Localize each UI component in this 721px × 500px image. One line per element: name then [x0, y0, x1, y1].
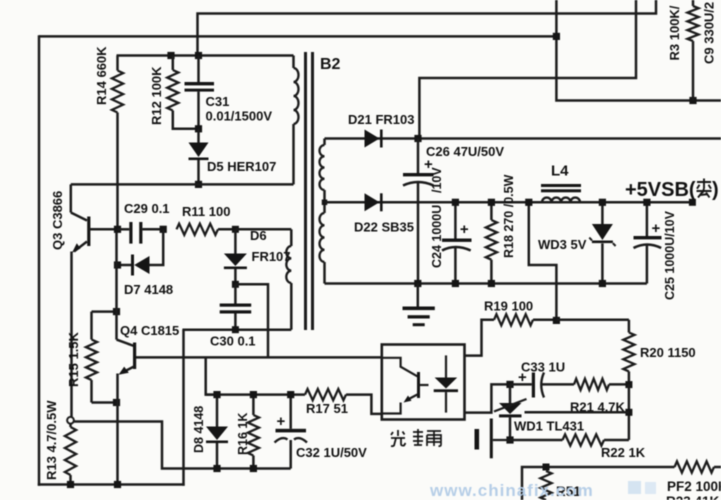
svg-text:R11 100: R11 100	[182, 204, 230, 219]
node junction dot L4 branch	[525, 199, 532, 206]
resistor R18 270	[486, 202, 497, 283]
svg-text:WD3 5V: WD3 5V	[538, 237, 587, 252]
svg-text:C24 1000U: C24 1000U	[430, 205, 444, 268]
wire aux winding top link	[235, 228, 291, 231]
svg-text:R3 100K/: R3 100K/	[667, 5, 682, 60]
svg-text:Q3 C3866: Q3 C3866	[50, 191, 65, 250]
svg-text:D7 4148: D7 4148	[124, 282, 173, 297]
svg-text:R23 41K: R23 41K	[666, 494, 720, 500]
transistor Q3 C3866	[71, 184, 91, 417]
label optocoupler guangou glyphs	[391, 429, 441, 446]
wire C30 bottom / aux return	[182, 328, 291, 331]
resistor PF2 100K horizontal	[675, 461, 721, 472]
svg-text:D5 HER107: D5 HER107	[207, 159, 276, 174]
resistor R16 1K	[248, 395, 259, 469]
label R11	[182, 204, 230, 219]
node junction dot R12/C31 bottom	[195, 125, 202, 132]
svg-text:/10V: /10V	[430, 167, 444, 193]
wire R20-R22 vertical	[628, 384, 631, 440]
label C30	[210, 334, 256, 349]
transformer primary winding top section	[294, 56, 299, 185]
node junction dot WD3 top	[599, 199, 606, 206]
node junction dot D21/C26	[414, 135, 421, 142]
diode D5 HER107	[189, 129, 209, 185]
svg-text:R17 51: R17 51	[306, 401, 348, 416]
node junction dot R3 bottom on y=100 line	[689, 97, 696, 104]
svg-text:C29 0.1: C29 0.1	[124, 201, 170, 216]
capacitor C33 1U	[510, 369, 574, 398]
svg-text:R18 270 /0.5W: R18 270 /0.5W	[502, 174, 516, 258]
svg-text:FR107: FR107	[252, 249, 291, 264]
svg-text:B2: B2	[320, 56, 341, 73]
node junction dot WD3 bottom	[599, 280, 606, 287]
inductor L4	[541, 184, 581, 202]
wire Q4 collector control bus y=357	[136, 356, 382, 359]
node junction dot D7 cathode on vertical	[114, 261, 121, 268]
wire bias rail y=394.6	[206, 393, 305, 396]
svg-text:R22 1K: R22 1K	[601, 445, 646, 460]
label B2	[320, 56, 341, 73]
label WD1	[514, 419, 584, 434]
label C31	[206, 94, 273, 124]
resistor R22 1K horizontal	[510, 434, 629, 445]
svg-text:C25 1000U/10V: C25 1000U/10V	[663, 210, 677, 300]
wire feedback return step	[74, 422, 291, 469]
transformer auxiliary winding	[286, 229, 291, 329]
node open circle Q3 emitter / R13 top	[67, 417, 74, 424]
svg-text:D8 4148: D8 4148	[192, 406, 206, 453]
node junction dot C32 top	[287, 391, 294, 398]
svg-text:R15 1.5K: R15 1.5K	[66, 331, 81, 387]
svg-text:C31: C31	[206, 94, 230, 109]
label D8	[192, 406, 206, 453]
label R22	[601, 445, 646, 460]
node junction dot R19/R20 wire	[553, 317, 560, 324]
resistor R12 100K vertical	[167, 56, 198, 129]
capacitor C30 0.1	[220, 284, 252, 329]
label PF2	[667, 479, 721, 494]
wire secondary ground rail	[325, 282, 647, 285]
diode D6 FR107	[224, 229, 247, 284]
capacitor C32 1U/50V	[275, 395, 308, 469]
wire control bus drop x=205.7	[206, 357, 217, 394]
wire R15 top link	[92, 310, 117, 313]
wire LED cathode to TL431 node	[465, 384, 511, 412]
node junction dot R51 top	[543, 464, 550, 471]
wire D22 +5V line y=202	[325, 201, 693, 204]
wire bottom block	[522, 467, 675, 500]
svg-text:R16 1K: R16 1K	[236, 413, 250, 455]
label C9	[702, 2, 717, 64]
wire vertical bus x=556 upper	[556, 0, 721, 101]
diode D22 SB35	[365, 193, 383, 211]
label D5	[207, 159, 276, 174]
svg-text:C33 1U: C33 1U	[521, 360, 565, 375]
svg-text:+: +	[277, 413, 286, 430]
node junction dot C25 top	[643, 199, 650, 206]
resistor R19 100	[465, 314, 557, 355]
label R16	[236, 413, 250, 455]
optocoupler phototransistor	[382, 358, 429, 414]
watermark chinafix	[429, 481, 656, 500]
transformer B2 core bars	[306, 52, 313, 330]
node junction dot top border meets bus	[553, 33, 560, 40]
resistor R13 4.7/0.5W	[65, 424, 76, 485]
label C32	[296, 445, 367, 460]
label R51	[556, 484, 581, 499]
label zi glyph	[697, 179, 712, 198]
wire D6 cathode to bus	[235, 284, 268, 357]
label +5VSB	[625, 179, 719, 201]
capacitor C26 47U/50V	[403, 139, 434, 284]
resistor R51 vertical partial	[540, 471, 551, 500]
node junction dot R16 top	[250, 391, 257, 398]
node junction dot R15 bottom	[113, 399, 120, 406]
svg-text:C30 0.1: C30 0.1	[210, 334, 256, 349]
svg-text:PF2 100K: PF2 100K	[667, 479, 721, 494]
node junction dot D8 bottom	[213, 465, 220, 472]
node junction dot R15 top	[113, 308, 120, 315]
label R21	[570, 400, 626, 415]
node junction dot C31 top	[195, 52, 202, 59]
node junction dot base bus top	[114, 226, 121, 233]
svg-text:D22 SB35: D22 SB35	[354, 220, 414, 235]
svg-text:D6: D6	[250, 228, 267, 243]
label R17	[306, 401, 348, 416]
label WD3	[538, 237, 587, 252]
svg-text:0.01/1500V: 0.01/1500V	[206, 109, 273, 124]
label R12	[149, 66, 164, 125]
diode D7 4148	[118, 229, 164, 275]
label D6	[250, 228, 291, 264]
svg-text:R19 100: R19 100	[484, 299, 533, 314]
wire HV rail to transformer primary top	[117, 54, 294, 57]
label D21	[348, 112, 414, 127]
optocoupler U1 box	[382, 345, 465, 420]
wire D21 snubber loop y=78	[419, 0, 636, 139]
node junction dot Q4 emitter rail	[114, 481, 121, 488]
wire outer box top edge	[39, 35, 556, 38]
svg-text:D21 FR103: D21 FR103	[348, 112, 414, 127]
label C24	[430, 205, 444, 268]
wire top feed line from C31 node to upper-right exit	[198, 0, 657, 56]
wire outer box left edge	[38, 35, 41, 486]
zener diode WD3 5V	[589, 202, 615, 283]
label R3	[667, 5, 682, 60]
label D7	[124, 282, 173, 297]
wire +5VSB jog to feedback	[529, 202, 557, 320]
label C29	[124, 201, 170, 216]
wire primary ground bottom rail	[38, 483, 185, 486]
resistor R20 1150	[623, 320, 634, 385]
svg-text:www.chinafix.com: www.chinafix.com	[429, 481, 594, 500]
diode D8 4148	[206, 395, 228, 469]
node junction dot D8 top	[213, 391, 220, 398]
label R13	[44, 400, 59, 480]
resistor R15 1.5K	[86, 312, 97, 403]
label R20	[640, 345, 696, 360]
label L4	[551, 163, 569, 180]
node junction dot WD1 cathode	[506, 381, 513, 388]
capacitor C25 1000U/10V	[634, 202, 662, 283]
svg-text:C9 330U/2: C9 330U/2	[702, 2, 717, 64]
node junction dot D5 anode on collector wire	[195, 181, 202, 188]
svg-text:+5VSB(: +5VSB(	[625, 179, 696, 201]
optocoupler LED	[434, 355, 458, 412]
label C25	[663, 210, 677, 300]
svg-text:R14 660K: R14 660K	[94, 46, 109, 105]
node junction dot C24 top	[452, 199, 459, 206]
wire TL431 ref	[525, 411, 629, 414]
label C26 voltage	[430, 167, 444, 193]
svg-text:WD1 TL431: WD1 TL431	[514, 419, 584, 434]
diode D21 FR103	[365, 130, 383, 148]
label R14	[94, 46, 109, 105]
svg-text:C26 47U/50V: C26 47U/50V	[426, 144, 504, 159]
node junction dot C30 bottom	[232, 326, 239, 333]
node junction dot D7 top	[160, 226, 167, 233]
label Q4	[120, 323, 179, 338]
resistor R21 4.7K horizontal	[574, 379, 629, 390]
svg-text:L4: L4	[551, 163, 569, 180]
node junction dot WD1 anode	[506, 436, 513, 443]
label R15	[66, 331, 81, 387]
node junction dot R13 bottom rail	[67, 481, 74, 488]
wire collector/primary-bottom line y=184	[71, 183, 294, 186]
wire R19 to R20	[556, 319, 629, 322]
svg-text:R20 1150: R20 1150	[640, 345, 696, 360]
node junction dot R18 bottom	[488, 280, 495, 287]
wire D21 output line y=138	[325, 137, 721, 140]
node junction dot R11 right / D6 anode	[232, 226, 239, 233]
resistor R11 100 horizontal	[177, 224, 236, 235]
node junction dot ref wire	[625, 409, 632, 416]
node junction dot R20/R21	[625, 381, 632, 388]
svg-text:C32 1U/50V: C32 1U/50V	[296, 445, 367, 460]
resistor R14 660K vertical	[112, 56, 123, 233]
wire vertical drop x=183.5	[182, 330, 185, 486]
ground reference cell bars	[475, 419, 511, 459]
svg-text:R12 100K: R12 100K	[149, 66, 164, 125]
svg-text:+: +	[460, 221, 469, 238]
node junction dot C26 ground	[414, 280, 421, 287]
capacitor C31 0.01/1500V	[185, 56, 215, 129]
node junction dot R18 top	[488, 199, 495, 206]
node terminal +5VSB	[689, 199, 696, 206]
node junction dot R12 top	[167, 52, 174, 59]
label R23 clipped	[666, 494, 720, 500]
label C26	[426, 144, 504, 159]
node junction dot D6 cathode	[232, 281, 239, 288]
transistor Q4 C1815	[117, 232, 137, 485]
ground symbol secondary	[403, 284, 435, 327]
transformer secondary winding	[320, 139, 325, 284]
node junction dot C24 bottom	[452, 280, 459, 287]
wire Q3 base to bus	[89, 228, 118, 231]
capacitor C24 1000U	[442, 202, 472, 283]
label D22	[354, 220, 414, 235]
label Q3	[50, 191, 65, 250]
label C33	[521, 360, 565, 375]
resistor R17 51 horizontal	[305, 389, 382, 414]
label R18	[502, 174, 516, 258]
node junction dot secondary center tap	[322, 200, 328, 206]
resistor R3 vertical	[687, 0, 698, 101]
svg-text:): )	[712, 179, 719, 201]
svg-text:Q4 C1815: Q4 C1815	[120, 323, 179, 338]
svg-text:+: +	[652, 220, 661, 237]
shunt regulator WD1 TL431	[494, 384, 527, 440]
wire R15 bottom link	[92, 401, 117, 404]
label R19	[484, 299, 533, 314]
node junction dot R16 bottom	[250, 465, 257, 472]
capacitor C29 0.1	[118, 222, 164, 244]
svg-text:R13 4.7/0.5W: R13 4.7/0.5W	[44, 400, 59, 480]
